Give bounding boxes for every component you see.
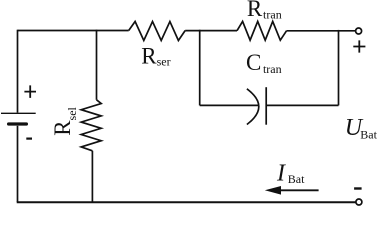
wire bottom <box>17 201 356 203</box>
wire RC loop left vertical <box>199 30 201 106</box>
svg-text:Bat: Bat <box>288 172 305 186</box>
wire R_sel branch top <box>96 30 98 100</box>
plus sign battery <box>24 85 36 98</box>
wire top-middle <box>185 30 237 32</box>
capacitor C_tran curved plate <box>247 89 259 125</box>
wire RC loop right vertical <box>338 30 340 106</box>
svg-text:I: I <box>276 161 286 187</box>
terminal top-right <box>356 28 362 34</box>
wire capacitor row left <box>200 104 259 106</box>
resistor R_ser <box>129 22 186 41</box>
svg-text:Rser: Rser <box>141 43 170 68</box>
wire left vertical upper <box>17 30 19 113</box>
wire top-left horizontal <box>18 30 129 32</box>
svg-text:Bat: Bat <box>360 128 377 142</box>
svg-text:Rtran: Rtran <box>247 0 282 21</box>
battery V1 long plate <box>1 112 36 114</box>
svg-text:Ctran: Ctran <box>246 50 282 76</box>
wire R_sel branch bottom <box>91 151 93 202</box>
arrow I_Bat line <box>279 189 319 191</box>
wire top-right <box>287 30 356 32</box>
battery V1 short plate <box>9 122 27 125</box>
terminal bottom-right <box>356 199 362 205</box>
wire capacitor row right <box>266 104 338 106</box>
arrow I_Bat head <box>265 186 281 195</box>
svg-text:Rsel: Rsel <box>50 106 79 135</box>
resistor R_sel <box>81 100 101 151</box>
plus sign terminal top-right <box>353 40 365 52</box>
wire left vertical lower <box>17 126 19 202</box>
minus sign battery <box>26 138 32 140</box>
resistor R_tran <box>237 21 287 40</box>
capacitor C_tran straight plate <box>265 87 267 125</box>
minus sign terminal bottom-right <box>354 187 362 189</box>
